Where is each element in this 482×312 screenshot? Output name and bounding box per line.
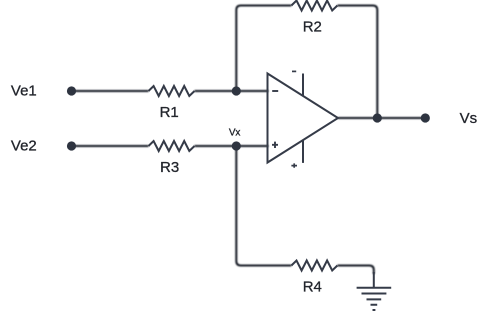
op-amp V+ plus label [291,163,297,167]
resistor R3 [149,141,195,151]
wire Vx node down and across to R4 [236,146,291,266]
wire feedback left: inverting node up and across to R2 [236,6,291,92]
op-amp non-inverting input plus sign [272,142,278,148]
op-amp V- minus label [292,70,296,72]
svg-text:R2: R2 [303,19,322,36]
node Ve1 terminal [67,86,76,95]
wire feedback right: R2 across and down to output node [337,6,377,119]
wire op-amp output to Vs terminal [338,117,425,119]
node inverting input junction [232,86,241,95]
resistor R4 [291,261,337,271]
resistor R1 [149,86,195,96]
svg-text:Ve2: Ve2 [11,138,37,155]
svg-text:R4: R4 [303,278,322,295]
node Vs terminal [421,113,430,122]
node Vx junction [232,141,241,150]
svg-text:Ve1: Ve1 [11,83,37,100]
wire Ve1 terminal to R1 [72,90,149,92]
node Ve2 terminal [67,141,76,150]
svg-text:R3: R3 [160,159,179,176]
svg-text:R1: R1 [160,104,179,121]
op-amp V- power pin [302,74,304,97]
op-amp inverting input minus sign [272,90,278,92]
wire R4 to ground stem [337,266,373,275]
op-amp V+ power pin [302,140,304,163]
svg-text:Vx: Vx [229,128,240,139]
node output junction [373,113,382,122]
wire Ve2 terminal to R3 [72,145,149,147]
resistor R2 [291,1,337,11]
svg-text:Vs: Vs [460,110,478,127]
ground [357,272,392,310]
wire R3 to op-amp non-inverting input [195,145,269,147]
op-amp U1 triangle [268,74,339,163]
wire R1 to op-amp inverting input [195,90,269,92]
